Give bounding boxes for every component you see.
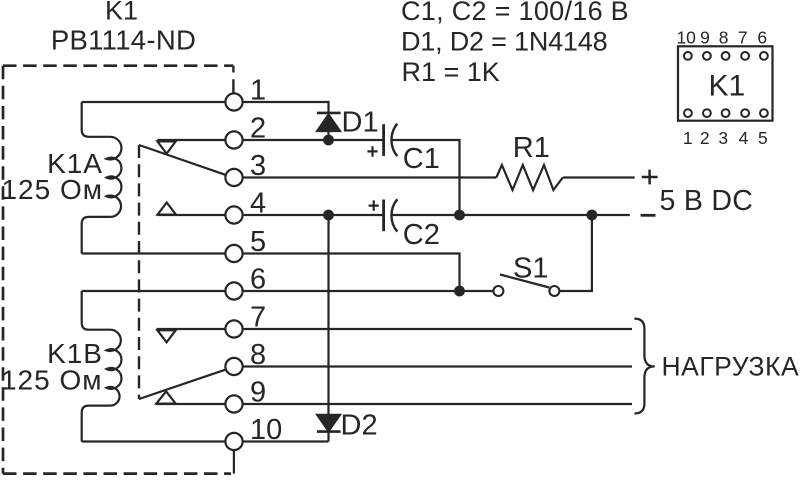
- wire pin 8 line: [234, 365, 632, 367]
- armature arm K1B to pin 8: [139, 369, 227, 399]
- svg-text:K1: K1: [708, 69, 745, 102]
- resistor R1: [496, 165, 563, 190]
- pin 3 circle: [225, 169, 242, 186]
- pin 10 circle: [225, 433, 242, 450]
- plus sign of 5V DC: [642, 170, 658, 185]
- contact triangle NO K1A: [158, 203, 177, 215]
- relay pinout box K1: [678, 46, 773, 120]
- svg-text:9: 9: [700, 27, 710, 47]
- relay K1 dashed outline top edge: [3, 64, 233, 67]
- coil K1B: [82, 291, 122, 442]
- contact triangle NO K1B: [156, 391, 175, 403]
- minus sign of 5V DC: [641, 214, 656, 217]
- wire pin 7 line: [157, 328, 633, 330]
- wire pin 2 line: [157, 139, 383, 141]
- wire coil K1B bottom to pin 10: [82, 440, 234, 442]
- pin 2 circle: [225, 131, 242, 148]
- svg-text:C2: C2: [403, 219, 440, 251]
- svg-text:7: 7: [250, 301, 266, 333]
- svg-text:10: 10: [250, 414, 282, 446]
- dashed armature link line: [138, 145, 140, 399]
- contact triangle NC K1B: [157, 330, 175, 342]
- svg-text:2: 2: [700, 128, 710, 148]
- svg-text:D1, D2 = 1N4148: D1, D2 = 1N4148: [401, 26, 607, 56]
- svg-text:125 Ом: 125 Ом: [1, 365, 103, 396]
- svg-text:НАГРУЗКА: НАГРУЗКА: [662, 352, 800, 382]
- wire pin 4 line: [158, 214, 384, 216]
- coil K1A: [82, 102, 122, 254]
- svg-text:8: 8: [250, 339, 266, 371]
- pin 6 circle: [225, 282, 242, 299]
- svg-text:D2: D2: [341, 410, 378, 442]
- wire C1 to minus rail corner: [392, 140, 459, 215]
- pin 4 circle: [225, 206, 242, 223]
- switch S1: [500, 215, 592, 291]
- svg-text:1: 1: [683, 128, 693, 148]
- svg-text:S1: S1: [513, 253, 548, 285]
- junction node pin5-pin6-S1: [454, 286, 465, 297]
- pin 7 circle: [225, 320, 242, 337]
- junction node D1-pin2: [323, 135, 334, 146]
- contact triangle NC K1A: [157, 141, 175, 153]
- wire coil K1A top to pin 1: [82, 101, 234, 103]
- wire coil K1A bottom to pin 5: [82, 252, 234, 254]
- svg-text:4: 4: [739, 128, 749, 148]
- svg-text:7: 7: [738, 27, 748, 47]
- svg-text:4: 4: [250, 187, 266, 219]
- svg-text:5: 5: [758, 128, 768, 148]
- wire pin 6 to S1 left contact: [234, 290, 498, 292]
- wire pin 9 line: [156, 403, 632, 405]
- diode D2: [317, 415, 341, 442]
- S1 right contact circle: [549, 286, 559, 296]
- brace for load: [634, 319, 654, 414]
- wire D1/D2 vertical from pin4 junction: [327, 215, 329, 415]
- svg-text:R1 = 1K: R1 = 1K: [402, 57, 500, 87]
- svg-text:5: 5: [250, 226, 266, 258]
- wire pin 5 to S1 node: [234, 254, 460, 292]
- svg-text:1: 1: [250, 74, 266, 106]
- capacitor C1: [367, 124, 397, 157]
- svg-text:D1: D1: [342, 106, 379, 138]
- wire minus rail: [392, 214, 630, 216]
- svg-text:3: 3: [718, 128, 728, 148]
- svg-text:3: 3: [250, 150, 266, 182]
- svg-text:C1, C2 = 100/16 В: C1, C2 = 100/16 В: [401, 0, 629, 26]
- S1 left contact circle: [493, 286, 503, 296]
- svg-text:R1: R1: [513, 132, 550, 164]
- svg-text:9: 9: [250, 376, 266, 408]
- svg-text:6: 6: [757, 27, 767, 47]
- junction node S1 right to rail: [587, 210, 598, 221]
- svg-text:125 Ом: 125 Ом: [1, 174, 103, 205]
- pin 1 circle: [225, 93, 242, 110]
- capacitor C2: [369, 199, 398, 232]
- wire R1 to plus terminal: [563, 176, 635, 178]
- svg-text:8: 8: [719, 27, 729, 47]
- wire pin10 stub to bottom edge: [233, 450, 235, 474]
- svg-text:2: 2: [250, 112, 266, 144]
- diode D1: [317, 113, 341, 140]
- svg-text:5 В DC: 5 В DC: [660, 185, 754, 217]
- pin 9 circle: [225, 395, 242, 412]
- junction node pin4-vertical: [323, 210, 334, 221]
- wire pin 3 line left: [234, 176, 496, 178]
- armature arm K1A to pin 3: [139, 145, 227, 175]
- svg-text:6: 6: [250, 263, 266, 295]
- relay K1 dashed outline left edge: [2, 66, 5, 474]
- pin 8 circle: [225, 358, 242, 375]
- junction node C1 down to rail: [454, 210, 465, 221]
- svg-text:K1: K1: [105, 0, 138, 26]
- wire pin 1 to D1: [234, 102, 329, 112]
- wire pin 10 to D2: [234, 440, 329, 442]
- relay K1 dashed stub to pin 1: [232, 66, 234, 93]
- svg-text:C1: C1: [403, 143, 440, 175]
- relay K1 dashed outline bottom edge: [3, 472, 231, 475]
- pin 5 circle: [225, 245, 242, 262]
- svg-text:PB1114-ND: PB1114-ND: [51, 24, 196, 55]
- svg-text:10: 10: [676, 27, 696, 47]
- wire coil K1B top to pin 6: [82, 290, 234, 292]
